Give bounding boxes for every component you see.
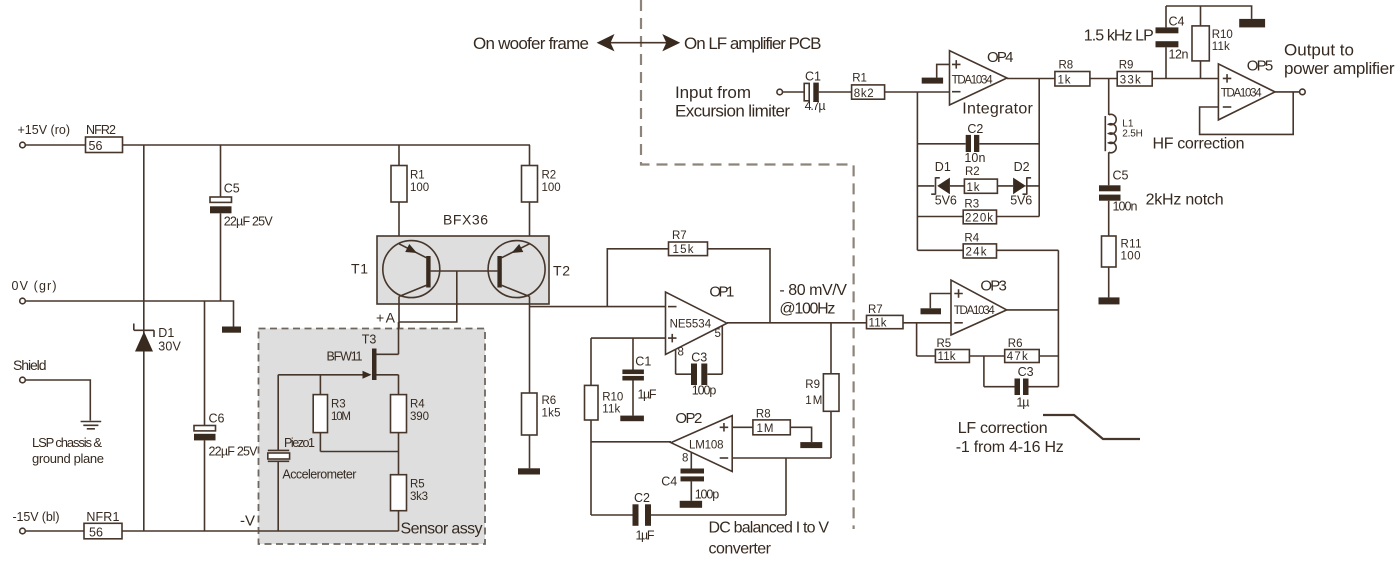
- svg-text:-1 from 4-16 Hz: -1 from 4-16 Hz: [956, 439, 1064, 456]
- svg-text:R7: R7: [672, 230, 687, 242]
- diode D1 zener: [134, 324, 154, 338]
- node +15V terminal: [20, 142, 26, 148]
- resistor NFR2: [86, 137, 123, 153]
- svg-text:converter: converter: [709, 541, 772, 558]
- wire +15V rail: [25, 144, 530, 146]
- svg-text:R9: R9: [805, 379, 820, 391]
- svg-text:OP2: OP2: [675, 410, 702, 427]
- inductor L1: [1108, 79, 1110, 115]
- capacitor C2 10n: [917, 143, 1039, 145]
- svg-text:1M: 1M: [805, 395, 822, 407]
- svg-text:C3: C3: [691, 350, 707, 364]
- svg-text:1k: 1k: [1058, 75, 1071, 87]
- svg-text:C2: C2: [967, 122, 983, 136]
- resistor R10 11k top: [1200, 6, 1202, 79]
- svg-text:100: 100: [410, 182, 429, 194]
- svg-text:C4: C4: [661, 475, 677, 489]
- svg-text:C1: C1: [805, 69, 821, 83]
- wire T3 drain from +A: [398, 322, 400, 354]
- arrow double-head: [608, 42, 669, 44]
- svg-text:Excursion limiter: Excursion limiter: [675, 102, 790, 121]
- wire OP3 output: [1007, 309, 1059, 311]
- ground bar R8: [800, 442, 822, 448]
- svg-text:R11: R11: [1121, 239, 1142, 251]
- resistor R10 11k: [590, 338, 592, 515]
- svg-text:OP1: OP1: [709, 284, 734, 301]
- svg-text:30V: 30V: [158, 340, 181, 354]
- svg-text:C5: C5: [224, 182, 240, 196]
- svg-text:R6: R6: [1008, 338, 1023, 350]
- svg-text:Integrator: Integrator: [962, 101, 1033, 118]
- svg-text:11k: 11k: [602, 404, 620, 416]
- svg-text:C5: C5: [1113, 169, 1129, 183]
- svg-text:R10: R10: [602, 392, 623, 404]
- ground bar 0V: [222, 327, 241, 333]
- wire OP2 minus line: [732, 458, 831, 515]
- svg-text:C6: C6: [209, 412, 225, 426]
- svg-text:@100Hz: @100Hz: [779, 301, 835, 318]
- svg-text:C3: C3: [1018, 365, 1034, 379]
- wire OP1 plus input: [591, 337, 666, 339]
- svg-text:R10: R10: [1212, 29, 1233, 41]
- svg-text:NFR2: NFR2: [86, 123, 116, 137]
- svg-text:220k: 220k: [965, 213, 993, 225]
- svg-text:On LF amplifier PCB: On LF amplifier PCB: [684, 34, 822, 53]
- resistor R9 1M: [830, 323, 832, 458]
- capacitor C4 12n: [1165, 6, 1167, 79]
- capacitor C1 1uF: [632, 338, 634, 416]
- svg-text:2.5H: 2.5H: [1122, 129, 1143, 140]
- svg-text:T3: T3: [362, 333, 377, 347]
- svg-text:C2: C2: [634, 491, 650, 505]
- svg-text:56: 56: [89, 525, 103, 539]
- wire OP1 minus input: [530, 306, 666, 308]
- resistor NFR1: [84, 523, 122, 539]
- wire C5 branch top: [220, 145, 222, 197]
- svg-text:1µF: 1µF: [636, 529, 655, 543]
- resistor R4 24k: [917, 249, 1058, 251]
- svg-text:R6: R6: [542, 395, 557, 407]
- svg-text:12n: 12n: [1169, 47, 1189, 61]
- resistor R2 1k: [964, 179, 997, 193]
- svg-text:OP4: OP4: [987, 49, 1014, 66]
- svg-text:R1: R1: [852, 73, 867, 85]
- wire 0V rail: [25, 301, 233, 327]
- svg-text:56: 56: [89, 139, 103, 153]
- ground chassis: [81, 422, 102, 429]
- svg-text:ground plane: ground plane: [32, 451, 104, 466]
- node Shield terminal: [20, 377, 26, 383]
- resistor R7 11k: [867, 315, 904, 328]
- svg-text:+15V (ro): +15V (ro): [18, 123, 71, 137]
- wire OP4 feedback left vertical: [916, 92, 918, 250]
- svg-text:1k: 1k: [967, 182, 980, 194]
- svg-text:Piezo1: Piezo1: [284, 436, 315, 450]
- diode D1 5V6: [917, 185, 964, 187]
- svg-text:R5: R5: [410, 479, 425, 491]
- op-amp OP1 NE5534: [666, 292, 728, 355]
- wire OP3 plus stub: [930, 294, 951, 309]
- capacitor C3 1u: [984, 356, 1059, 387]
- svg-text:1µF: 1µF: [638, 388, 657, 402]
- svg-text:Sensor assy: Sensor assy: [401, 521, 483, 538]
- svg-text:Output to: Output to: [1284, 41, 1354, 60]
- svg-text:R7: R7: [868, 304, 883, 316]
- resistor R11 100: [1102, 236, 1117, 267]
- svg-text:24k: 24k: [966, 247, 987, 259]
- svg-text:10M: 10M: [331, 411, 351, 423]
- wire base link: [431, 270, 498, 272]
- svg-text:8k2: 8k2: [854, 88, 874, 100]
- svg-text:1M: 1M: [757, 423, 774, 435]
- svg-text:100p: 100p: [695, 488, 720, 502]
- svg-text:R2: R2: [542, 170, 557, 182]
- svg-text:Accelerometer: Accelerometer: [282, 468, 356, 482]
- svg-text:- 80 mV/V: - 80 mV/V: [779, 282, 847, 299]
- sensor assy box: [259, 329, 486, 545]
- node -15V terminal: [20, 528, 26, 534]
- resistor R4: [398, 375, 400, 475]
- svg-text:TDA1034: TDA1034: [952, 75, 994, 87]
- wire OP5 feedback: [1200, 92, 1294, 134]
- resistor R9 33k: [1117, 72, 1152, 87]
- svg-text:R9: R9: [1119, 59, 1134, 71]
- svg-text:1µ: 1µ: [1016, 396, 1029, 410]
- ground bar R6: [518, 468, 540, 474]
- resistor R2: [529, 145, 531, 244]
- svg-text:T2: T2: [553, 263, 570, 279]
- svg-text:3k3: 3k3: [410, 491, 428, 503]
- svg-text:22µF 25V: 22µF 25V: [209, 445, 259, 459]
- svg-text:47k: 47k: [1007, 351, 1028, 363]
- node 0V terminal: [20, 298, 26, 304]
- svg-text:NFR1: NFR1: [86, 510, 119, 524]
- transistor T1: [383, 241, 440, 298]
- wire -15V rail: [25, 530, 398, 532]
- svg-text:5: 5: [715, 328, 721, 340]
- svg-text:On woofer frame: On woofer frame: [473, 34, 589, 53]
- resistor R8 1k: [1055, 72, 1090, 87]
- svg-text:R8: R8: [756, 409, 771, 421]
- slope symbol: [1043, 415, 1140, 439]
- svg-text:Input from: Input from: [675, 83, 751, 102]
- svg-text:T1: T1: [351, 261, 368, 277]
- svg-text:100: 100: [542, 182, 561, 194]
- svg-text:LM108: LM108: [689, 439, 724, 451]
- svg-text:OP5: OP5: [1247, 58, 1274, 75]
- resistor R6 47k: [1005, 350, 1039, 363]
- svg-text:D1: D1: [935, 160, 951, 174]
- svg-text:DC balanced I to V: DC balanced I to V: [709, 520, 830, 537]
- svg-text:LSP chassis &: LSP chassis &: [32, 435, 102, 450]
- resistor R6 1k5: [522, 393, 538, 435]
- wire right vertical integrator: [1038, 79, 1040, 217]
- wire OP1 feedback loop: [607, 249, 770, 323]
- svg-text:8: 8: [678, 347, 684, 359]
- svg-text:100: 100: [1121, 251, 1141, 263]
- op-amp OP5 TDA1034: [1218, 64, 1275, 120]
- node output terminal: [1300, 89, 1306, 95]
- svg-text:BFW11: BFW11: [327, 350, 363, 364]
- svg-text:0V (gr): 0V (gr): [12, 279, 57, 293]
- svg-text:11k: 11k: [869, 317, 887, 329]
- svg-text:5V6: 5V6: [935, 194, 957, 208]
- wire C5 branch bottom: [220, 213, 222, 301]
- resistor R1 8k2: [819, 91, 950, 93]
- svg-text:C1: C1: [635, 355, 651, 369]
- capacitor C5 100n: [1108, 152, 1110, 236]
- wire OP4 output: [1007, 78, 1055, 80]
- svg-text:LF correction: LF correction: [958, 420, 1048, 437]
- ground bar OP4: [922, 78, 943, 84]
- op-amp OP3 TDA1034: [951, 280, 1007, 335]
- wire T1 collector down: [398, 297, 400, 355]
- wire OP5 output: [1275, 91, 1300, 93]
- svg-text:+A: +A: [376, 310, 396, 326]
- BFX36 dual transistor box: [377, 236, 549, 304]
- svg-text:22µF 25V: 22µF 25V: [224, 215, 274, 229]
- transistor T2: [488, 241, 545, 298]
- capacitor C2 1uF bottom: [591, 514, 786, 516]
- svg-text:R3: R3: [331, 399, 346, 411]
- svg-text:33k: 33k: [1120, 75, 1141, 87]
- svg-text:2kHz notch: 2kHz notch: [1146, 192, 1224, 209]
- svg-text:-V: -V: [240, 513, 255, 530]
- ground bar OP3: [921, 308, 942, 314]
- svg-text:100n: 100n: [1113, 200, 1138, 214]
- svg-text:100p: 100p: [692, 384, 717, 398]
- svg-text:D1: D1: [158, 326, 174, 340]
- capacitor C6: [204, 301, 206, 426]
- capacitor C1 4.7u: [804, 83, 809, 100]
- svg-text:R1: R1: [410, 170, 425, 182]
- resistor R7 15k: [669, 242, 708, 256]
- svg-text:1.5 kHz LP: 1.5 kHz LP: [1084, 28, 1154, 45]
- resistor R3 220k: [917, 216, 1039, 218]
- wire top rail to ground: [1166, 6, 1252, 19]
- wire OP4 plus stub: [937, 64, 950, 77]
- wire shield: [25, 380, 90, 421]
- svg-text:R2: R2: [965, 166, 980, 178]
- svg-text:TDA1034: TDA1034: [1221, 88, 1263, 100]
- svg-text:power amplifier: power amplifier: [1284, 59, 1395, 78]
- resistor R1: [398, 145, 400, 244]
- resistor R5 11k: [935, 350, 969, 363]
- svg-text:D2: D2: [1014, 160, 1030, 174]
- svg-text:NE5534: NE5534: [670, 319, 712, 331]
- svg-text:R3: R3: [964, 199, 979, 211]
- svg-text:TDA1034: TDA1034: [954, 305, 996, 317]
- svg-text:HF correction: HF correction: [1153, 136, 1245, 153]
- svg-text:R5: R5: [937, 338, 952, 350]
- svg-text:11k: 11k: [938, 351, 956, 363]
- svg-text:R4: R4: [964, 232, 979, 244]
- op-amp OP4 TDA1034: [950, 51, 1008, 105]
- resistor R8 1M: [732, 427, 811, 442]
- ground bar top right: [1239, 19, 1265, 28]
- resistor R3: [320, 375, 398, 452]
- wire OP3 right vertical: [1057, 250, 1059, 386]
- svg-text:R8: R8: [1059, 59, 1074, 71]
- svg-text:1k5: 1k5: [542, 408, 561, 420]
- svg-text:BFX36: BFX36: [443, 212, 488, 228]
- svg-text:11k: 11k: [1212, 41, 1230, 53]
- piezo Piezo1 accelerometer: [268, 375, 289, 531]
- svg-text:10n: 10n: [964, 151, 985, 165]
- dashed partition line: [641, 0, 854, 529]
- diode D2 5V6: [997, 185, 1039, 187]
- op-amp OP2 LM108: [591, 441, 671, 443]
- wire base tap to +A: [399, 271, 457, 322]
- ground bar C4: [680, 501, 702, 508]
- node input terminal: [777, 89, 783, 95]
- wire -V rail inside sensor box: [259, 530, 399, 532]
- svg-text:4.7µ: 4.7µ: [805, 99, 826, 113]
- wire D1 vertical: [143, 145, 145, 531]
- wire OP1 output: [727, 322, 867, 324]
- capacitor C5: [210, 197, 232, 202]
- svg-text:OP3: OP3: [980, 278, 1007, 295]
- wire T2 collector down: [529, 297, 531, 394]
- svg-text:15k: 15k: [673, 244, 694, 256]
- svg-text:5V6: 5V6: [1010, 194, 1032, 208]
- svg-text:390: 390: [410, 411, 429, 423]
- svg-text:C4: C4: [1169, 15, 1185, 29]
- wire OP3 minus to R5: [917, 323, 936, 356]
- capacitor C3 100p: [676, 326, 723, 375]
- svg-text:-15V (bl): -15V (bl): [13, 510, 60, 524]
- capacitor C4 100p OP2: [690, 452, 692, 501]
- ground bar C1: [620, 416, 644, 422]
- svg-text:R4: R4: [410, 399, 425, 411]
- ground bar R11: [1099, 297, 1120, 304]
- svg-text:Shield: Shield: [13, 357, 47, 373]
- resistor R5: [391, 475, 407, 511]
- svg-text:8: 8: [682, 453, 688, 465]
